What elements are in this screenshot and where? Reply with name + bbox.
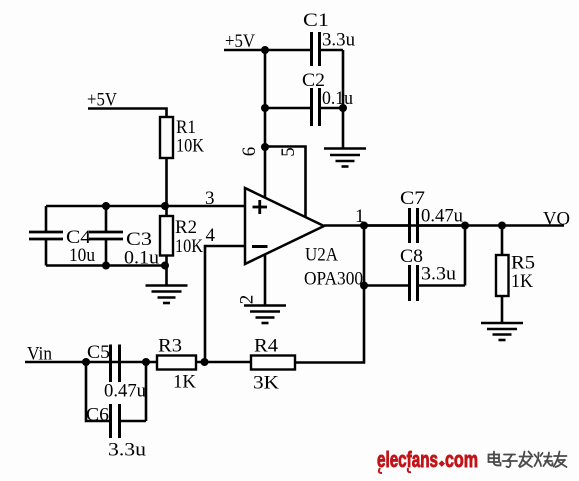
junction node3-C3 [102,202,110,210]
svg-text:U2A: U2A [305,245,338,266]
wire R5 top [501,226,504,256]
svg-text:1K: 1K [511,271,533,292]
svg-text:C6: C6 [86,405,109,426]
wire node3 to R2 top [165,206,168,216]
char 子 [503,455,518,468]
svg-text:4: 4 [206,225,216,246]
pin number 1 [355,206,365,227]
label C8 [400,246,423,267]
net Vin label [27,344,52,365]
wire R3 to R4 [196,361,251,364]
junction pin5/pin6 [261,143,269,151]
value 10K (R1) [176,136,204,157]
junction R5 top [498,222,506,230]
capacitor C5 [111,345,120,383]
svg-text:10K: 10K [175,236,203,257]
net +5V (left) label [87,90,117,111]
wire V+ vertical (pin 6) [264,50,267,198]
wire C1/C2 right to ground [342,50,345,149]
ground (below R5) [481,323,523,340]
svg-text:R3: R3 [158,336,182,357]
value 1K (R5) [511,271,533,292]
label R5 [511,253,535,274]
capacitor C7 [364,208,465,243]
char 烧 [535,453,553,467]
svg-text:0.47u: 0.47u [421,206,463,227]
label C7 [400,188,425,209]
pin number 2 [237,295,258,305]
label C6 [86,405,109,426]
label U2A [305,245,338,266]
node 3 rail wire [46,205,245,208]
capacitor C6 [86,362,146,438]
junction C2-left [261,104,269,112]
value 10u (C4) [69,245,95,266]
svg-text:R4: R4 [254,336,279,357]
value 10K (R2) [175,236,203,257]
wire jog to pin 5 [265,147,306,218]
part OPA300 [304,269,363,290]
value 3.3u (C6) [108,440,147,461]
resistor R2 [160,216,173,256]
svg-text:R2: R2 [175,217,197,238]
wire inverting input pin 4 [205,246,245,362]
net +5V (top) label [225,31,255,52]
label C4 [66,227,92,248]
label R3 [158,336,182,357]
capacitor C8 [364,265,465,301]
watermark elecfans.com [377,447,478,473]
svg-text:2: 2 [237,295,258,305]
svg-text:0.1u: 0.1u [322,88,353,109]
wire R2 bottom to ground rail [165,256,168,266]
ground (pin 2) [244,306,286,324]
junction C2-right [339,104,347,112]
wire +5V left rail to R1 top [88,109,167,118]
junction +5V-V+ branch [261,46,269,54]
resistor R5 [496,255,509,296]
label R2 [175,217,197,238]
svg-text:3: 3 [205,188,215,209]
svg-text:10K: 10K [176,136,204,157]
svg-text:6: 6 [239,147,260,157]
wire +5V top rail to C1 [224,49,311,52]
value 3.3u (C8) [421,264,457,285]
svg-text:3K: 3K [253,373,279,394]
junction C8 left [360,282,368,290]
svg-text:C8: C8 [400,246,423,267]
wire pin 2 to ground [264,254,267,306]
svg-text:10u: 10u [69,245,95,266]
net VO label [543,209,570,230]
char 友 [554,452,567,468]
wire bottom rail C4/C3 to R2 bottom [46,264,167,267]
wire Vin to R3 [25,361,157,364]
capacitor C4 [29,206,63,266]
pin number 4 [206,225,216,246]
char 电 [489,452,501,466]
minus input marking [252,245,268,248]
junction Vin-C5/C6 left [82,358,90,366]
plus input marking [253,200,268,214]
watermark 电子发烧友 (drawn strokes) [489,452,567,468]
label C2 [302,70,325,91]
capacitor C3 [89,206,123,266]
value 0.47u (C5) [104,381,146,402]
capacitor C1 [312,32,344,66]
label C5 [87,342,110,363]
junction node3-R1-R2 [161,202,169,210]
wire output down to C8/R4 [295,226,364,363]
svg-text:OPA300: OPA300 [304,269,363,290]
junction R3-R4-pin4 [201,358,209,366]
label R4 [254,336,279,357]
junction bottomrail-R2 [161,262,169,270]
label C1 [303,10,329,31]
svg-text:com: com [445,447,478,472]
capacitor C2 [265,88,343,126]
pin number 3 [205,188,215,209]
ground (below R2) [146,286,188,304]
value 1K (R3) [173,372,196,393]
svg-text:C5: C5 [87,342,110,363]
pin number 6 [239,147,260,157]
value 0.1u (C3) [124,248,160,269]
wire output rail (pin 1 to VO) [324,224,564,227]
svg-text:0.47u: 0.47u [104,381,146,402]
junction output branch [360,222,368,230]
value 0.1u (C2) [322,88,353,109]
label R1 [176,117,196,138]
svg-text:VO: VO [543,209,570,230]
wire R1 bottom to node 3 [165,158,168,206]
label C3 [126,229,152,250]
svg-text:3.3u: 3.3u [322,30,355,51]
junction bottomrail-C3 [102,262,110,270]
op-amp U2A [245,188,324,264]
wire C7/C8 right vertical [464,226,467,286]
resistor R1 [160,117,173,158]
char 发 [519,452,533,468]
svg-text:5: 5 [278,147,299,157]
value 3.3u (C1) [322,30,355,51]
svg-text:1K: 1K [173,372,196,393]
wire R2 junction to ground [165,266,168,286]
resistor R4 [251,356,295,370]
pin number 5 [278,147,299,157]
value 3K (R4) [253,373,279,394]
svg-text:3.3u: 3.3u [108,440,147,461]
junction C5/C6 right [142,358,150,366]
value 0.47u (C7) [421,206,463,227]
wire R5 bottom to ground [501,296,504,323]
svg-text:3.3u: 3.3u [421,264,457,285]
svg-text:C1: C1 [303,10,329,31]
resistor R3 [157,356,196,370]
ground (top, C1/C2) [324,149,366,167]
junction C7 right [461,222,469,230]
